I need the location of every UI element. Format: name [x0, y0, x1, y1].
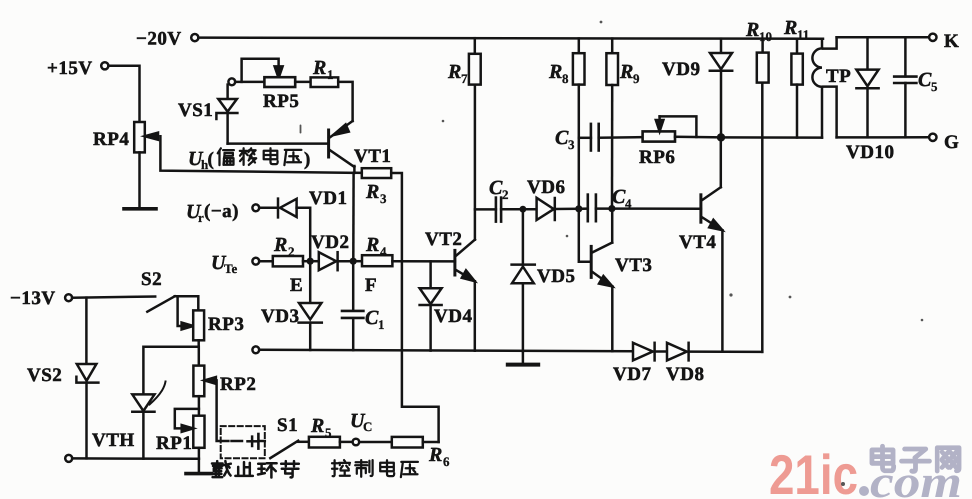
svg-text:VD3: VD3: [261, 306, 299, 327]
wire RP5 to R1: [295, 81, 310, 84]
svg-text:R: R: [428, 444, 442, 466]
label 止 (stop): [235, 462, 252, 476]
svg-text:11: 11: [797, 27, 809, 42]
svg-text:G: G: [944, 132, 959, 153]
svg-text:S2: S2: [141, 269, 162, 290]
node UC terminal: [353, 439, 360, 446]
label 制 (regulate): [355, 460, 372, 477]
thyristor VTH: [132, 394, 154, 411]
diode VD7: [633, 343, 653, 361]
svg-text:7: 7: [461, 71, 468, 86]
resistor R1: [311, 77, 339, 87]
svg-text:RP3: RP3: [208, 314, 244, 335]
resistor R9: [611, 39, 614, 54]
wire RP1 wiper loop: [175, 409, 199, 429]
svg-text:RP5: RP5: [263, 91, 299, 112]
label 控 (control): [332, 460, 350, 476]
switch S2 blade: [147, 296, 174, 311]
svg-text:RP1: RP1: [156, 433, 192, 454]
svg-text:C: C: [555, 127, 569, 149]
wire RP4 bottom: [138, 152, 141, 207]
svg-text:4: 4: [380, 244, 387, 259]
label 电 (electric): [264, 148, 278, 164]
label 节 (element): [281, 461, 299, 477]
wire -20V bus: [198, 38, 823, 39]
wire R2 to E: [303, 260, 310, 263]
svg-text:VT3: VT3: [615, 255, 652, 276]
wire UTe to R2: [259, 260, 273, 263]
zener VS1: [226, 85, 229, 99]
svg-text:4: 4: [625, 196, 632, 211]
potentiometer RP1: [193, 416, 204, 448]
svg-text:RP6: RP6: [639, 147, 675, 168]
label 电 (electric): [380, 460, 394, 476]
node +15V terminal: [101, 62, 108, 69]
resistor R5: [309, 437, 340, 448]
resistor R8: [578, 39, 581, 54]
svg-text:VD10: VD10: [846, 142, 894, 163]
label 压 (voltage): [284, 150, 301, 165]
diode VD10: [866, 37, 869, 69]
wire G row: [837, 136, 930, 139]
svg-text:+15V: +15V: [47, 58, 93, 79]
svg-text:VD7: VD7: [613, 364, 651, 385]
svg-text:1: 1: [378, 317, 385, 332]
svg-text:1: 1: [327, 67, 334, 82]
wire VT2 emitter to bus: [474, 281, 477, 351]
svg-text:R: R: [365, 181, 379, 203]
node F junction: [350, 258, 357, 265]
transistor VT4: [699, 195, 702, 222]
wire bottom-left bus: [72, 457, 199, 460]
ground below RP4: [124, 207, 156, 211]
diode VD4: [429, 261, 432, 288]
wire +15V to RP4: [108, 66, 139, 122]
resistor R7: [474, 38, 477, 54]
transformer TP secondary links: [823, 37, 836, 48]
capacitor C1: [352, 261, 355, 310]
node C4 right junction: [608, 205, 615, 212]
svg-text:5: 5: [325, 425, 332, 440]
svg-text:R: R: [447, 61, 461, 83]
zener VD5: [522, 209, 525, 264]
wire RP1 bottom: [198, 448, 201, 472]
svg-text:10: 10: [759, 29, 772, 44]
wire R3 node to F: [352, 173, 355, 261]
wire R3 right down to R6: [391, 173, 438, 442]
potentiometer RP4: [134, 122, 145, 152]
svg-text:Te: Te: [224, 261, 237, 276]
capacitor C2: [475, 208, 496, 211]
wire VD9 node to TP: [721, 136, 822, 139]
watermark 电子网: [872, 446, 959, 471]
svg-text:VD4: VD4: [434, 306, 472, 327]
wire R10 long lead: [761, 83, 764, 352]
svg-text:R: R: [312, 57, 326, 79]
svg-text:RP4: RP4: [93, 129, 129, 150]
label 移 (shift): [240, 148, 256, 165]
wire R5 to UC: [340, 441, 353, 444]
wire RP2 to RP1: [198, 396, 201, 416]
node K terminal: [929, 34, 936, 41]
wire -13V row: [72, 297, 155, 298]
svg-text:VTH: VTH: [92, 430, 135, 451]
wire main bottom bus: [259, 350, 633, 352]
svg-text:S1: S1: [277, 415, 298, 436]
svg-text:R: R: [273, 234, 287, 256]
wire S2 to RP3: [175, 296, 199, 310]
resistor R10: [761, 39, 764, 53]
svg-text:C: C: [365, 307, 379, 329]
node VD5 tap: [520, 206, 527, 213]
node C4 left junction: [575, 205, 582, 212]
svg-text:VT2: VT2: [425, 229, 462, 250]
svg-text:(−a): (−a): [204, 201, 239, 222]
capacitor C5: [904, 37, 907, 76]
svg-text:3: 3: [568, 137, 575, 152]
node Ur terminal: [252, 204, 259, 211]
capacitor C3: [579, 137, 591, 140]
scan speckles: [300, 21, 924, 486]
svg-text:R: R: [745, 19, 759, 41]
diode VD2: [310, 260, 319, 263]
transformer TP primary: [821, 39, 824, 49]
wire RP2 wiper to S1 box: [208, 380, 228, 441]
diode VD6: [537, 198, 554, 220]
svg-text:VS2: VS2: [27, 365, 62, 386]
capacitor C4: [579, 207, 588, 210]
node UTe terminal: [252, 258, 259, 265]
label 偏 (bias): [218, 148, 234, 165]
svg-text:3: 3: [380, 191, 387, 206]
svg-text:(: (: [208, 149, 215, 170]
svg-text:−13V: −13V: [10, 288, 56, 309]
wire R1 to VT1 emitter: [338, 82, 352, 121]
transistor VT1: [327, 130, 330, 157]
svg-text:−20V: −20V: [136, 29, 182, 50]
wire R6 right: [423, 441, 439, 444]
ground below RP1: [186, 472, 212, 476]
node VD9 junction: [717, 133, 725, 141]
svg-text:R: R: [365, 234, 379, 256]
svg-text:C: C: [363, 419, 372, 434]
watermark dot: [859, 486, 869, 496]
svg-text:6: 6: [443, 454, 450, 469]
wire RP3 bottom junction: [143, 340, 198, 394]
zener VS2: [77, 364, 97, 381]
wire RP3 to RP2: [198, 347, 201, 366]
resistor R4: [353, 260, 362, 263]
wire VT2 collector to R7: [474, 85, 477, 240]
wire R9 down to C4 node: [611, 85, 614, 209]
svg-text:VD2: VD2: [311, 232, 349, 253]
wire R8 node to VT3 base: [579, 209, 591, 262]
wire RP5 input circle: [228, 78, 235, 85]
svg-text:5: 5: [931, 79, 938, 94]
diode VD8: [667, 343, 687, 361]
wire VS1 to VT1 base: [228, 142, 329, 145]
transistor VT2: [453, 250, 456, 275]
svg-text:K: K: [944, 31, 959, 52]
svg-text:VD5: VD5: [537, 266, 575, 287]
svg-text:TP: TP: [826, 66, 851, 87]
wire VD1 to E: [297, 208, 311, 261]
wire UC to R6: [359, 441, 392, 444]
svg-text:2: 2: [288, 244, 295, 259]
potentiometer RP6: [643, 131, 675, 141]
svg-text:VD8: VD8: [666, 364, 704, 385]
wire VD8 to R10 branch: [689, 350, 763, 353]
svg-text:R: R: [619, 61, 633, 83]
node E junction: [307, 258, 314, 265]
wire RP5 wiper loop: [242, 59, 279, 82]
label 截 (cut): [212, 461, 231, 477]
svg-text:R: R: [783, 17, 797, 39]
svg-text:R: R: [548, 61, 562, 83]
node -13V terminal: [65, 294, 72, 301]
svg-text:8: 8: [562, 71, 569, 86]
transistor VT3: [590, 246, 593, 277]
resistor R2: [273, 256, 303, 266]
diode VD1: [259, 207, 278, 210]
svg-text:VT1: VT1: [354, 146, 391, 167]
potentiometer RP2: [193, 366, 204, 397]
wire RP3 wiper link: [178, 296, 189, 326]
svg-text:VT4: VT4: [679, 232, 716, 253]
resistor R11: [796, 39, 799, 54]
svg-text:C: C: [918, 69, 932, 91]
svg-text:VD9: VD9: [662, 59, 700, 80]
node bottom-left terminal: [65, 455, 72, 462]
battery inside S1 box: [232, 440, 243, 443]
switch S1 blade: [270, 441, 298, 458]
wire C4 node to VT4 base: [612, 207, 701, 210]
svg-text:RP2: RP2: [220, 374, 256, 395]
wire K bus: [837, 36, 930, 39]
svg-text:E: E: [290, 275, 303, 296]
ground below VD5: [522, 351, 525, 363]
svg-text:C: C: [612, 186, 626, 208]
wire RP6 to VD9 node: [675, 136, 721, 139]
svg-text:R: R: [310, 415, 324, 437]
node -20V terminal: [191, 34, 198, 41]
wire RP4 wiper: [160, 136, 354, 173]
potentiometer RP3: [193, 310, 204, 340]
label 环 (loop): [258, 463, 277, 477]
diode VD9: [720, 39, 723, 53]
svg-text:VD6: VD6: [527, 177, 565, 198]
wire R8 down: [578, 85, 581, 209]
dashed box cutoff element: [221, 426, 265, 458]
svg-text:): ): [304, 149, 311, 170]
wire R4 to VT2 base: [392, 260, 455, 263]
wire VS2 branch: [85, 298, 88, 364]
svg-text:21ic: 21ic: [769, 443, 858, 499]
potentiometer RP5: [264, 77, 295, 87]
svg-text:VS1: VS1: [178, 100, 213, 121]
resistor R6: [392, 437, 423, 448]
resistor R3: [362, 168, 391, 178]
node bottom-left bus terminal: [252, 346, 259, 353]
wire S1 to R5: [298, 441, 309, 444]
node G terminal: [929, 134, 936, 141]
svg-text:C: C: [489, 177, 503, 199]
svg-text:F: F: [365, 275, 377, 296]
svg-text:2: 2: [502, 187, 509, 202]
svg-text:9: 9: [633, 71, 640, 86]
diode VD3: [309, 261, 312, 303]
label 压 (voltage): [401, 462, 418, 477]
svg-text:VD1: VD1: [309, 188, 347, 209]
